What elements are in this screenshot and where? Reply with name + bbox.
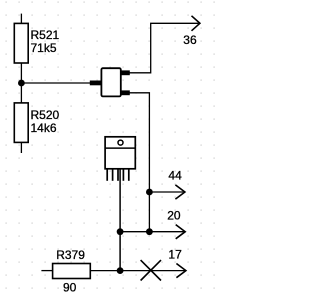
resistor R521 <box>14 23 59 63</box>
wire top stub above R521 <box>20 14 22 24</box>
wire row 20 to arrow <box>120 231 184 233</box>
resistor R520 <box>14 103 59 142</box>
node 36 (arrow and label) <box>183 16 200 47</box>
node junction A <box>18 80 25 87</box>
wire from Q1 bottom-right pin down the right rail <box>130 93 150 232</box>
wire from node A to transistor left pin <box>21 82 90 84</box>
node 44 (arrow and label) <box>168 168 185 199</box>
wire from Q1 top-right pin up to net 36 arrow <box>130 23 199 73</box>
resistor R379 <box>53 248 91 294</box>
svg-text:90: 90 <box>63 280 77 294</box>
svg-text:20: 20 <box>167 209 181 223</box>
wire left stub into R379 <box>41 270 52 272</box>
svg-text:36: 36 <box>183 33 197 47</box>
node junction B on right rail <box>146 189 153 196</box>
IC U1 (TO-220 package outline) <box>105 137 135 181</box>
node junction D (right rail, row 20) <box>146 228 153 235</box>
svg-text:R521: R521 <box>31 28 60 42</box>
wire between R521 and R520 <box>20 63 22 103</box>
svg-text:71k5: 71k5 <box>31 41 57 55</box>
no-connect cross X <box>141 260 161 280</box>
svg-text:17: 17 <box>168 247 182 261</box>
node 20 (arrow and label) <box>167 209 185 239</box>
wire to net 44 arrow <box>149 191 183 193</box>
wire U1 middle leg down to bottom net <box>119 169 121 271</box>
svg-text:R520: R520 <box>31 108 60 122</box>
node 17 (arrow and label) <box>168 247 186 277</box>
svg-text:14k6: 14k6 <box>31 121 57 135</box>
svg-text:R379: R379 <box>56 248 85 262</box>
wire from R379 to arrow 17 <box>90 270 184 272</box>
svg-text:44: 44 <box>168 168 182 182</box>
wire bottom stub below R520 <box>20 142 22 153</box>
node junction E (left rail, bottom row) <box>117 267 124 274</box>
transistor Q1 (SOT package outline) <box>90 68 130 96</box>
node junction C (left rail, row 20) <box>117 228 124 235</box>
